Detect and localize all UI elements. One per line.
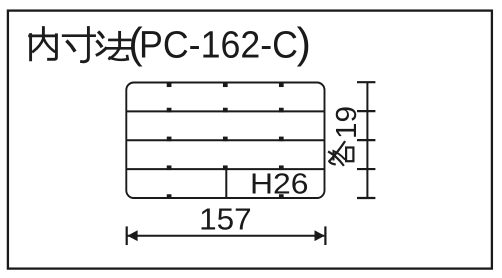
divider line 1 [126,110,324,112]
slot dots divider 2 [167,137,172,142]
svg-text:PC-162-C: PC-162-C [139,25,298,67]
divider line 2 [126,139,324,141]
left arrowhead [127,230,137,241]
tick 4 [357,168,375,170]
rotated label 各19 [329,106,363,165]
tick 2 [357,110,375,112]
divider line 3 [126,168,324,170]
svg-text:H26: H26 [250,168,309,200]
slot dots divider 3 [167,165,172,170]
tick top [357,81,375,83]
slot dots bottom edge [167,194,172,199]
right arrowhead [315,230,325,241]
svg-text:157: 157 [199,203,252,237]
tick 3 [357,139,375,141]
vertical divider bottom row [225,169,227,198]
slot dots divider 1 [167,108,172,113]
tick bottom [357,197,375,199]
left end tick [126,226,128,245]
right end tick [324,226,326,245]
svg-text:): ) [297,20,311,68]
svg-text:19: 19 [331,106,363,139]
title kanji 寸 [63,28,94,62]
case outline box [126,83,324,199]
title kanji 法 [97,32,133,60]
slot dots top edge [167,82,172,87]
title kanji 内 [30,28,57,60]
right dimension vertical line [366,82,368,198]
kanji 各 [329,142,353,165]
bottom dimension line 157 [128,235,325,237]
